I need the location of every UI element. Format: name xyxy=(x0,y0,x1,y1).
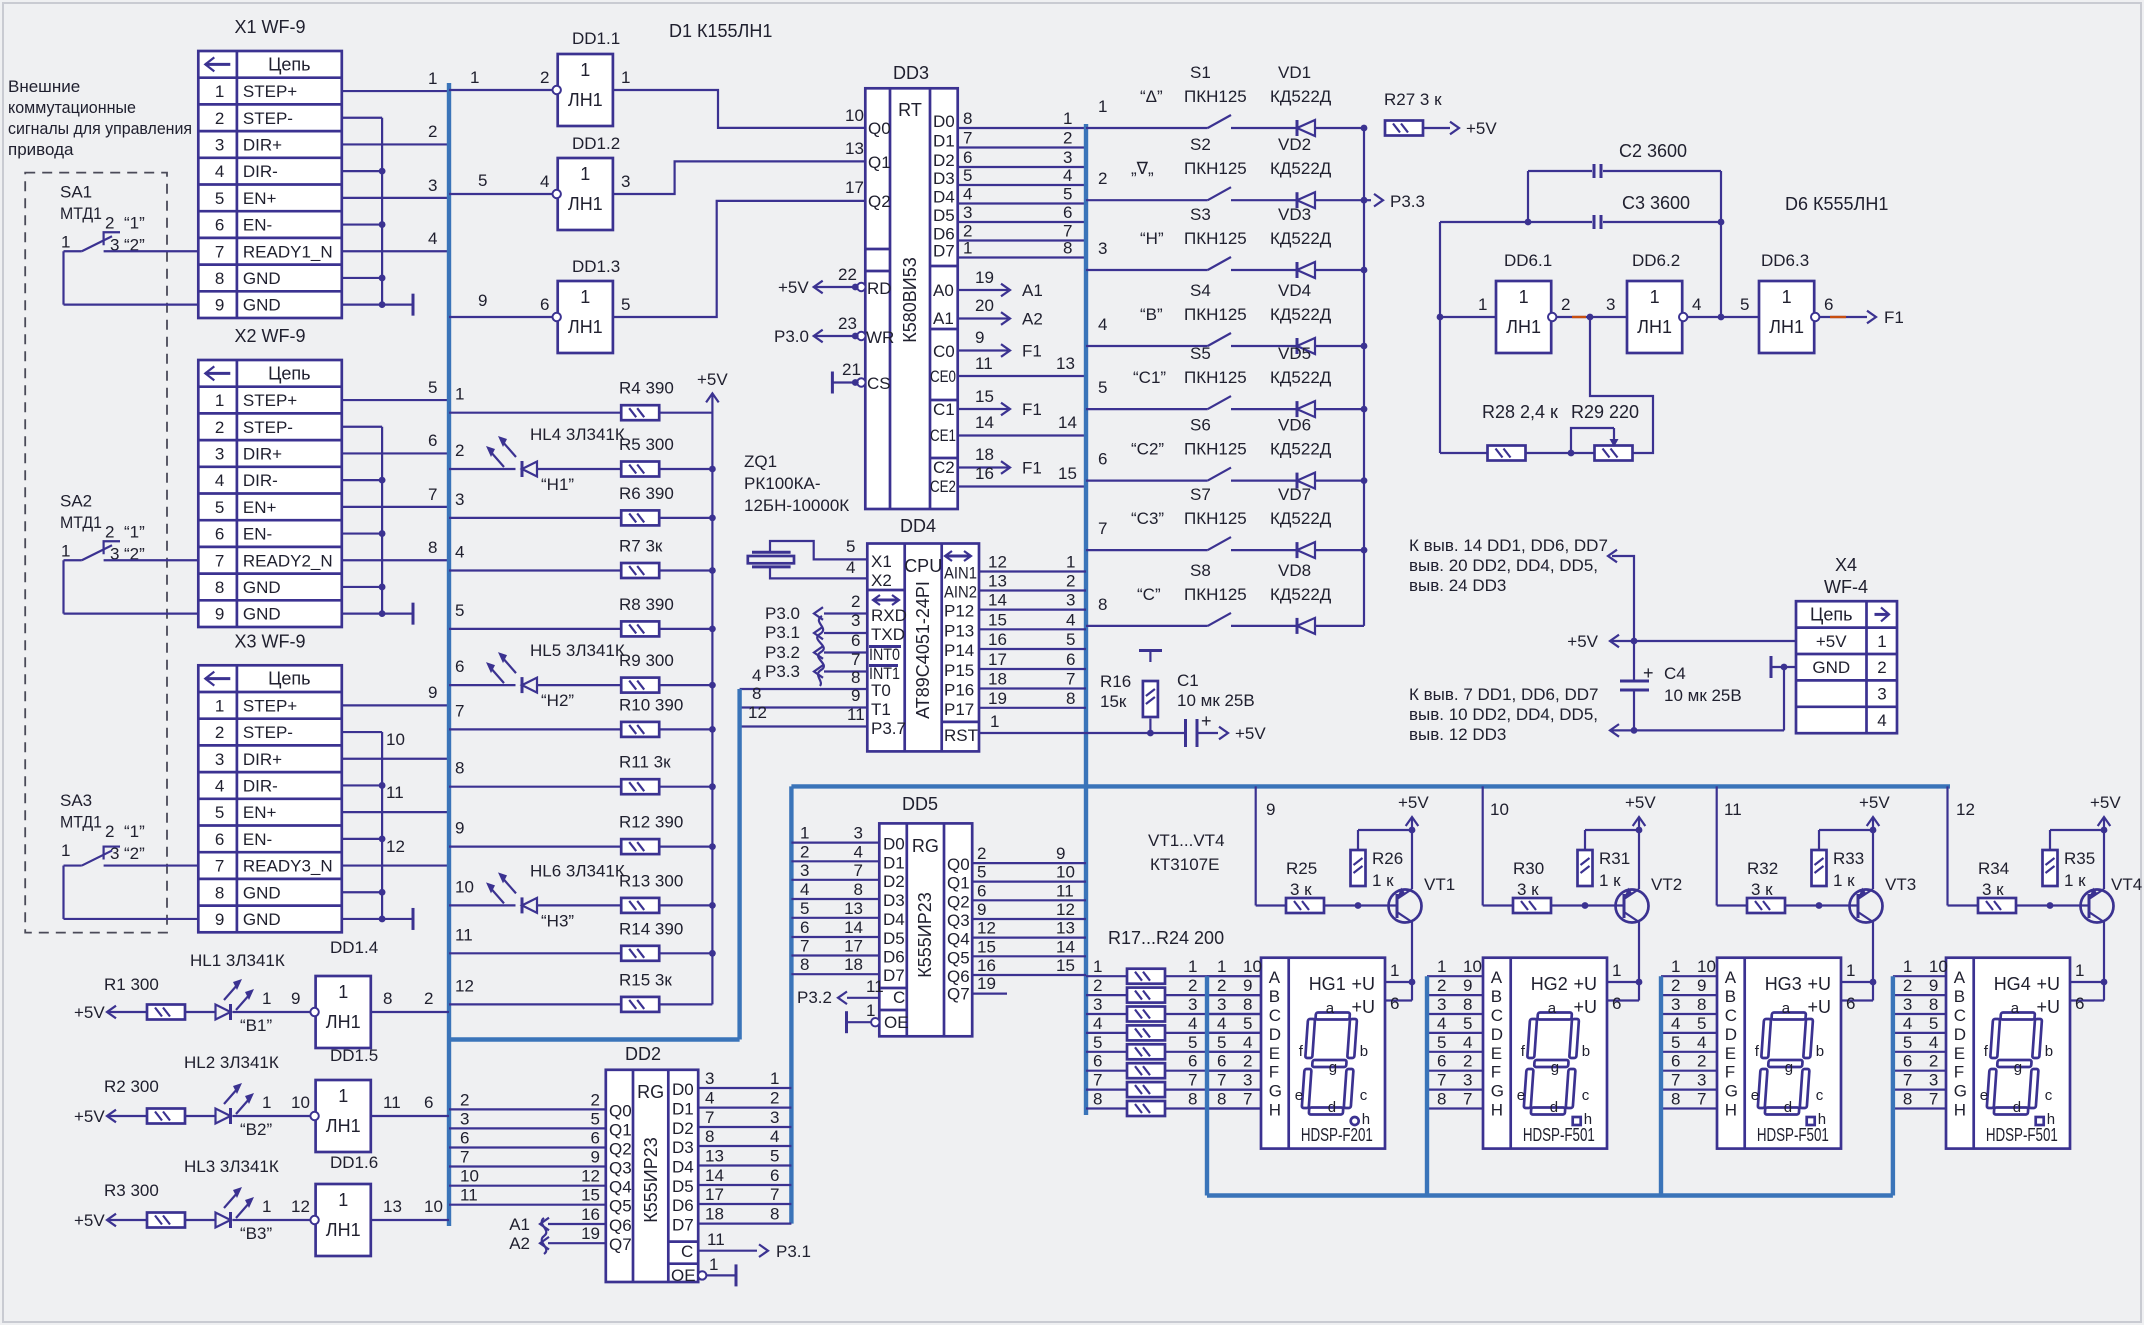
svg-text:4: 4 xyxy=(1188,1014,1197,1033)
svg-text:4: 4 xyxy=(846,558,855,577)
svg-text:9: 9 xyxy=(1243,976,1252,995)
svg-text:6: 6 xyxy=(215,216,224,235)
svg-text:CS: CS xyxy=(867,374,891,393)
7seg display HG4 xyxy=(1946,958,2070,1149)
svg-text:7: 7 xyxy=(800,937,809,956)
svg-text:D1: D1 xyxy=(933,132,955,151)
svg-text:g: g xyxy=(1785,1059,1793,1076)
svg-text:“С1”: “С1” xyxy=(1133,368,1166,387)
svg-text:ЛН1: ЛН1 xyxy=(568,90,603,110)
svg-text:R10 390: R10 390 xyxy=(619,695,683,714)
svg-text:8: 8 xyxy=(1903,1090,1912,1109)
svg-text:ЛН1: ЛН1 xyxy=(1506,317,1541,337)
svg-text:1: 1 xyxy=(621,68,630,87)
svg-text:DIR+: DIR+ xyxy=(243,444,282,463)
svg-text:D7: D7 xyxy=(933,242,955,261)
svg-text:9: 9 xyxy=(591,1148,600,1167)
svg-text:2: 2 xyxy=(540,68,549,87)
wire DD6.2 out to DD6.3 in xyxy=(1687,316,1759,318)
svg-text:1: 1 xyxy=(1188,957,1197,976)
svg-text:6: 6 xyxy=(963,148,972,167)
svg-text:VT4: VT4 xyxy=(2111,875,2142,894)
svg-text:8: 8 xyxy=(851,668,860,687)
svg-text:b: b xyxy=(1360,1043,1368,1060)
svg-text:GND: GND xyxy=(243,578,281,597)
svg-text:D2: D2 xyxy=(883,872,905,891)
svg-text:9: 9 xyxy=(851,686,860,705)
svg-text:12: 12 xyxy=(988,553,1007,572)
svg-text:6: 6 xyxy=(428,431,437,450)
svg-text:6: 6 xyxy=(1390,994,1399,1013)
svg-text:A1: A1 xyxy=(509,1215,530,1234)
svg-text:ПКН125: ПКН125 xyxy=(1184,305,1247,324)
svg-text:EN+: EN+ xyxy=(243,189,277,208)
svg-text:“2”: “2” xyxy=(124,844,145,863)
inverter DD6.2 xyxy=(1627,281,1682,353)
svg-text:7: 7 xyxy=(1066,670,1075,689)
svg-text:3: 3 xyxy=(215,750,224,769)
svg-text:7: 7 xyxy=(854,861,863,880)
svg-text:G: G xyxy=(1269,1082,1282,1101)
svg-text:2: 2 xyxy=(1243,1052,1252,1071)
svg-text:e: e xyxy=(1751,1087,1759,1104)
svg-text:14: 14 xyxy=(975,413,994,432)
svg-text:2: 2 xyxy=(1063,129,1072,148)
svg-text:READY1_N: READY1_N xyxy=(243,242,333,261)
svg-text:RG: RG xyxy=(637,1082,664,1102)
svg-text:4: 4 xyxy=(215,162,224,181)
svg-text:ПКН125: ПКН125 xyxy=(1184,585,1247,604)
svg-text:D0: D0 xyxy=(883,835,905,854)
wire bus to DD1.3 in xyxy=(449,316,552,318)
svg-text:4: 4 xyxy=(215,471,224,490)
svg-text:8: 8 xyxy=(963,109,972,128)
svg-text:13: 13 xyxy=(383,1197,402,1216)
svg-text:5: 5 xyxy=(1066,630,1075,649)
svg-text:8: 8 xyxy=(1063,239,1072,258)
svg-text:DD2: DD2 xyxy=(625,1044,661,1064)
svg-text:12: 12 xyxy=(581,1167,600,1186)
capacitor C4 xyxy=(1633,641,1635,681)
svg-text:RT: RT xyxy=(898,100,922,120)
svg-text:16: 16 xyxy=(975,464,994,483)
svg-text:3 к: 3 к xyxy=(1751,880,1773,899)
svg-text:R11 3к: R11 3к xyxy=(619,753,671,772)
svg-text:5: 5 xyxy=(1697,1014,1706,1033)
svg-text:8: 8 xyxy=(1243,995,1252,1014)
svg-text:7: 7 xyxy=(215,242,224,261)
svg-text:13: 13 xyxy=(844,899,863,918)
svg-text:AT89C4051-24PI: AT89C4051-24PI xyxy=(913,581,933,719)
svg-text:7: 7 xyxy=(428,485,437,504)
svg-text:C1: C1 xyxy=(933,400,955,419)
svg-text:D4: D4 xyxy=(672,1158,694,1177)
svg-text:8: 8 xyxy=(1697,995,1706,1014)
resistor R11 xyxy=(449,786,621,788)
svg-text:11: 11 xyxy=(975,354,993,373)
svg-text:1: 1 xyxy=(1098,97,1107,116)
svg-text:17: 17 xyxy=(844,937,863,956)
X2 wires to bus xyxy=(342,399,449,401)
svg-text:6: 6 xyxy=(591,1129,600,1148)
svg-text:+5V: +5V xyxy=(74,1211,105,1230)
svg-text:1: 1 xyxy=(2075,961,2084,980)
DD4 right group arrow xyxy=(945,555,971,558)
svg-text:VD1: VD1 xyxy=(1278,63,1311,82)
svg-text:4: 4 xyxy=(428,229,437,248)
transistor VT1 + R25 R26 xyxy=(1255,786,1257,905)
svg-text:8: 8 xyxy=(428,538,437,557)
svg-text:RG: RG xyxy=(912,836,939,856)
svg-text:R5 300: R5 300 xyxy=(619,435,674,454)
svg-text:E: E xyxy=(1954,1044,1965,1063)
svg-text:11: 11 xyxy=(707,1230,725,1249)
svg-text:8: 8 xyxy=(1066,689,1075,708)
svg-text:READY3_N: READY3_N xyxy=(243,857,333,876)
+5V rail for R4-R15 xyxy=(711,398,713,1004)
svg-text:1: 1 xyxy=(262,989,271,1008)
svg-text:Q7: Q7 xyxy=(947,985,970,1004)
svg-text:2: 2 xyxy=(215,418,224,437)
svg-text:15к: 15к xyxy=(1100,692,1127,711)
svg-text:HL4 3Л341К: HL4 3Л341К xyxy=(530,425,625,444)
svg-text:1: 1 xyxy=(1437,957,1446,976)
svg-text:“Δ”: “Δ” xyxy=(1140,87,1163,106)
svg-text:Цепь: Цепь xyxy=(1810,604,1852,624)
svg-text:R32: R32 xyxy=(1747,859,1778,878)
svg-text:P3.0: P3.0 xyxy=(765,604,800,623)
svg-text:8: 8 xyxy=(215,578,224,597)
svg-text:b: b xyxy=(1816,1043,1824,1060)
svg-text:+U: +U xyxy=(1573,997,1597,1017)
svg-text:4: 4 xyxy=(770,1127,779,1146)
svg-text:EN-: EN- xyxy=(243,525,272,544)
switch S8 + diode VD8 xyxy=(1086,625,1208,627)
svg-text:R13 300: R13 300 xyxy=(619,871,683,890)
capacitor C1 xyxy=(1184,719,1187,747)
svg-text:DIR-: DIR- xyxy=(243,776,278,795)
switch S7 + diode VD7 xyxy=(1086,549,1208,551)
svg-text:10: 10 xyxy=(455,877,474,896)
svg-text:D: D xyxy=(1725,1025,1737,1044)
svg-text:Q1: Q1 xyxy=(947,874,970,893)
bus: segment bus HG2 xyxy=(1425,976,1429,1195)
svg-text:5: 5 xyxy=(770,1147,779,1166)
svg-text:ПКН125: ПКН125 xyxy=(1184,440,1247,459)
svg-text:D0: D0 xyxy=(933,112,955,131)
svg-text:T0: T0 xyxy=(871,681,891,700)
svg-text:1: 1 xyxy=(1877,632,1886,651)
svg-text:3: 3 xyxy=(1903,995,1912,1014)
svg-text:КД522Д: КД522Д xyxy=(1270,305,1332,324)
svg-text:16: 16 xyxy=(581,1205,600,1224)
svg-text:6: 6 xyxy=(540,295,549,314)
svg-text:9: 9 xyxy=(975,328,984,347)
svg-text:R31: R31 xyxy=(1599,849,1630,868)
switch S5 + diode VD5 xyxy=(1086,408,1208,410)
svg-text:19: 19 xyxy=(988,689,1007,708)
svg-text:+5V: +5V xyxy=(1398,793,1429,812)
svg-text:EN+: EN+ xyxy=(243,803,277,822)
svg-text:F1: F1 xyxy=(1022,342,1042,361)
svg-text:GND: GND xyxy=(243,269,281,288)
svg-text:коммутационные: коммутационные xyxy=(8,98,136,117)
svg-text:X1 WF-9: X1 WF-9 xyxy=(234,17,305,37)
svg-text:5: 5 xyxy=(1063,185,1072,204)
svg-text:a: a xyxy=(1782,1000,1791,1017)
svg-text:1: 1 xyxy=(470,68,479,87)
svg-text:X2: X2 xyxy=(871,571,892,590)
svg-text:7: 7 xyxy=(1903,1071,1912,1090)
svg-text:7: 7 xyxy=(455,701,464,720)
svg-text:A: A xyxy=(1725,968,1737,987)
svg-text:6: 6 xyxy=(851,631,860,650)
svg-text:D3: D3 xyxy=(933,169,955,188)
svg-text:+5V: +5V xyxy=(1235,724,1266,743)
svg-text:Q5: Q5 xyxy=(609,1197,632,1216)
svg-text:B: B xyxy=(1269,987,1280,1006)
svg-text:8: 8 xyxy=(215,883,224,902)
svg-text:2: 2 xyxy=(105,522,114,541)
svg-text:10: 10 xyxy=(1056,863,1075,882)
svg-text:9: 9 xyxy=(1266,800,1275,819)
svg-text:Q6: Q6 xyxy=(947,967,970,986)
svg-text:S3: S3 xyxy=(1190,205,1211,224)
svg-text:HL5 3Л341К: HL5 3Л341К xyxy=(530,641,625,660)
DD4 left group arrow xyxy=(873,599,899,602)
svg-text:5: 5 xyxy=(455,601,464,620)
svg-text:6: 6 xyxy=(460,1129,469,1148)
svg-text:Q5: Q5 xyxy=(947,948,970,967)
svg-text:4: 4 xyxy=(1243,1033,1252,1052)
svg-text:S1: S1 xyxy=(1190,63,1211,82)
svg-text:8: 8 xyxy=(455,759,464,778)
svg-text:1: 1 xyxy=(1093,957,1102,976)
svg-text:DIR+: DIR+ xyxy=(243,750,282,769)
svg-text:D7: D7 xyxy=(672,1216,694,1235)
svg-text:SA2: SA2 xyxy=(60,491,92,510)
svg-text:13: 13 xyxy=(1056,354,1075,373)
svg-text:CE0: CE0 xyxy=(930,367,956,386)
svg-text:HDSP-F501: HDSP-F501 xyxy=(1523,1125,1595,1145)
switch S3 + diode VD3 xyxy=(1086,269,1208,271)
svg-text:ZQ1: ZQ1 xyxy=(744,452,777,471)
svg-text:1: 1 xyxy=(1519,287,1529,307)
wire bus to DD1.1 in xyxy=(449,89,552,91)
svg-text:4: 4 xyxy=(1903,1014,1912,1033)
svg-text:13: 13 xyxy=(845,139,864,158)
bus: DD4 P1 bus segment xyxy=(737,689,741,1040)
svg-text:+5V: +5V xyxy=(1466,119,1497,138)
svg-text:S5: S5 xyxy=(1190,344,1211,363)
svg-text:1: 1 xyxy=(1217,957,1226,976)
resistor R18 xyxy=(1086,994,1127,996)
svg-text:Q3: Q3 xyxy=(609,1159,632,1178)
svg-text:ПКН125: ПКН125 xyxy=(1184,159,1247,178)
svg-text:S8: S8 xyxy=(1190,561,1211,580)
resistor R8 xyxy=(449,628,621,630)
svg-text:+5V: +5V xyxy=(1567,632,1598,651)
svg-text:d: d xyxy=(1784,1099,1792,1116)
svg-text:2: 2 xyxy=(1066,572,1075,591)
svg-text:21: 21 xyxy=(842,360,861,379)
svg-text:Q6: Q6 xyxy=(609,1216,632,1235)
svg-text:C0: C0 xyxy=(933,342,955,361)
svg-text:Q4: Q4 xyxy=(947,930,970,949)
svg-text:GND: GND xyxy=(243,296,281,315)
svg-text:3: 3 xyxy=(1066,591,1075,610)
svg-text:+5V: +5V xyxy=(1859,793,1890,812)
svg-text:C1: C1 xyxy=(1177,671,1199,690)
svg-text:F: F xyxy=(1491,1063,1501,1082)
svg-text:7: 7 xyxy=(215,857,224,876)
svg-text:c: c xyxy=(2045,1087,2053,1104)
svg-text:5: 5 xyxy=(1093,1033,1102,1052)
svg-text:DD1.3: DD1.3 xyxy=(572,257,620,276)
resistor R13 + LED HL6 xyxy=(449,904,516,906)
svg-text:R29 220: R29 220 xyxy=(1571,402,1639,422)
svg-text:14: 14 xyxy=(988,591,1007,610)
svg-text:4: 4 xyxy=(1692,295,1701,314)
svg-text:15: 15 xyxy=(1056,956,1075,975)
svg-text:10: 10 xyxy=(460,1167,479,1186)
svg-text:AIN2: AIN2 xyxy=(944,583,977,602)
svg-text:X4: X4 xyxy=(1835,555,1857,575)
svg-text:8: 8 xyxy=(1929,995,1938,1014)
svg-text:20: 20 xyxy=(975,296,994,315)
svg-text:3: 3 xyxy=(215,135,224,154)
svg-text:ПКН125: ПКН125 xyxy=(1184,368,1247,387)
svg-text:КД522Д: КД522Д xyxy=(1270,229,1332,248)
svg-text:+5V: +5V xyxy=(1625,793,1656,812)
resistor R16 xyxy=(1139,649,1162,652)
svg-text:+5V: +5V xyxy=(74,1003,105,1022)
svg-text:18: 18 xyxy=(988,670,1007,689)
resistor R9 + LED HL5 xyxy=(449,684,516,686)
svg-text:VD8: VD8 xyxy=(1278,561,1311,580)
svg-text:C: C xyxy=(1491,1006,1503,1025)
svg-text:e: e xyxy=(1980,1087,1988,1104)
bus: segment bus HG3 xyxy=(1659,976,1663,1195)
svg-text:6: 6 xyxy=(1903,1052,1912,1071)
svg-text:4: 4 xyxy=(1098,315,1107,334)
svg-text:10: 10 xyxy=(1243,957,1262,976)
IC DD2 body xyxy=(606,1070,698,1282)
svg-text:+: + xyxy=(1201,711,1212,731)
svg-text:VD5: VD5 xyxy=(1278,344,1311,363)
svg-text:2: 2 xyxy=(460,1090,469,1109)
svg-text:HL6 3Л341К: HL6 3Л341К xyxy=(530,861,625,880)
svg-text:P3.3: P3.3 xyxy=(1390,192,1425,211)
svg-text:A2: A2 xyxy=(509,1234,530,1253)
svg-text:5: 5 xyxy=(1437,1033,1446,1052)
svg-text:“Н1”: “Н1” xyxy=(541,475,574,494)
wire DD6.1 out to DD6.2 in xyxy=(1556,316,1627,318)
resistor R20 xyxy=(1086,1032,1127,1034)
7seg display HG1 xyxy=(1261,958,1385,1149)
svg-text:EN-: EN- xyxy=(243,830,272,849)
svg-text:8: 8 xyxy=(752,684,761,703)
svg-text:1: 1 xyxy=(1903,957,1912,976)
svg-text:+U: +U xyxy=(1807,974,1831,994)
svg-text:7: 7 xyxy=(1929,1090,1938,1109)
crystal ZQ1 xyxy=(752,551,791,554)
svg-text:C: C xyxy=(893,988,905,1007)
svg-text:R26: R26 xyxy=(1372,849,1403,868)
svg-text:4: 4 xyxy=(1217,1014,1226,1033)
svg-text:3: 3 xyxy=(428,176,437,195)
svg-text:10: 10 xyxy=(1463,957,1482,976)
svg-text:STEP-: STEP- xyxy=(243,723,293,742)
svg-text:“1”: “1” xyxy=(124,522,145,541)
wire DD1.2 out to DD3.Q1 xyxy=(613,161,865,194)
bus: segment bus HG4 xyxy=(1891,976,1895,1195)
svg-text:9: 9 xyxy=(428,683,437,702)
svg-text:5: 5 xyxy=(428,378,437,397)
svg-text:VD3: VD3 xyxy=(1278,205,1311,224)
svg-text:КД522Д: КД522Д xyxy=(1270,87,1332,106)
svg-text:18: 18 xyxy=(975,445,994,464)
svg-text:3: 3 xyxy=(1606,295,1615,314)
svg-text:R8 390: R8 390 xyxy=(619,595,674,614)
svg-text:1: 1 xyxy=(1390,961,1399,980)
svg-text:+U: +U xyxy=(2036,997,2060,1017)
svg-text:Q2: Q2 xyxy=(947,892,970,911)
svg-text:5: 5 xyxy=(215,803,224,822)
svg-text:Q0: Q0 xyxy=(609,1101,632,1120)
inverter DD1.3 xyxy=(558,281,613,353)
svg-text:1: 1 xyxy=(1063,109,1072,128)
svg-text:CE1: CE1 xyxy=(930,426,956,445)
svg-text:D1: D1 xyxy=(672,1100,694,1119)
7seg display HG3 xyxy=(1717,958,1841,1149)
svg-text:1: 1 xyxy=(61,541,70,560)
svg-text:DD6.1: DD6.1 xyxy=(1504,251,1552,270)
svg-text:Q4: Q4 xyxy=(609,1178,632,1197)
svg-text:P3.1: P3.1 xyxy=(776,1242,811,1261)
svg-text:VT2: VT2 xyxy=(1651,875,1682,894)
svg-text:10: 10 xyxy=(386,730,405,749)
svg-text:DD1.6: DD1.6 xyxy=(330,1153,378,1172)
svg-text:8: 8 xyxy=(1098,595,1107,614)
svg-text:К555ИР23: К555ИР23 xyxy=(915,892,935,977)
svg-text:1: 1 xyxy=(262,1093,271,1112)
svg-text:13: 13 xyxy=(705,1147,724,1166)
svg-text:c: c xyxy=(1582,1087,1590,1104)
svg-text:К выв. 14 DD1, DD6, DD7: К выв. 14 DD1, DD6, DD7 xyxy=(1409,536,1608,555)
svg-text:S4: S4 xyxy=(1190,281,1211,300)
svg-text:4: 4 xyxy=(963,185,972,204)
svg-text:14: 14 xyxy=(1058,413,1077,432)
svg-text:“1”: “1” xyxy=(124,213,145,232)
dashed boundary around SA1-SA3 xyxy=(25,173,167,933)
svg-text:3: 3 xyxy=(963,203,972,222)
svg-text:DD1.2: DD1.2 xyxy=(572,134,620,153)
svg-text:6: 6 xyxy=(1217,1052,1226,1071)
svg-text:8: 8 xyxy=(1437,1090,1446,1109)
wire crystal to X1 pin xyxy=(770,541,867,559)
svg-text:GND: GND xyxy=(243,910,281,929)
svg-text:2: 2 xyxy=(1098,169,1107,188)
svg-text:7: 7 xyxy=(1093,1071,1102,1090)
svg-text:2: 2 xyxy=(800,842,809,861)
svg-text:2: 2 xyxy=(591,1090,600,1109)
svg-text:3 к: 3 к xyxy=(1290,880,1312,899)
svg-text:11: 11 xyxy=(866,977,884,996)
svg-text:3: 3 xyxy=(800,861,809,880)
svg-text:R16: R16 xyxy=(1100,672,1131,691)
svg-text:P3.1: P3.1 xyxy=(765,623,800,642)
